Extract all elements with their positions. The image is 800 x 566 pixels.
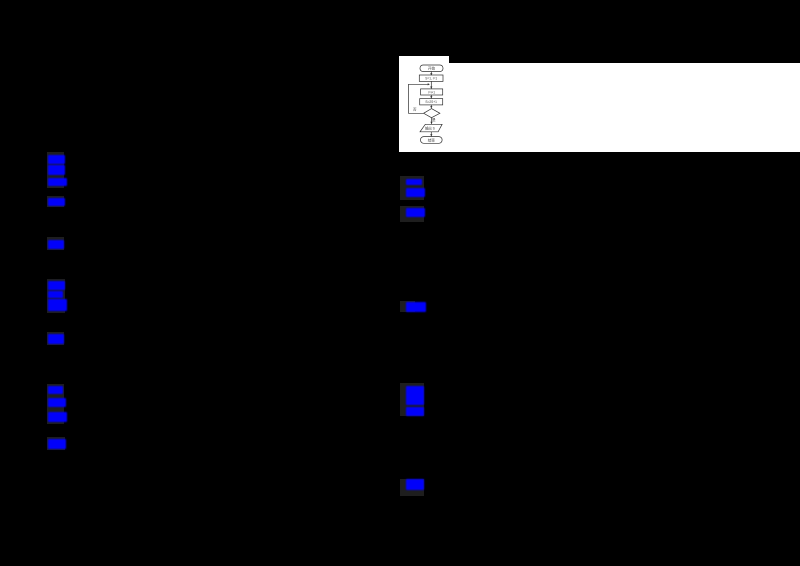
svg-text:开始: 开始 [428, 66, 436, 71]
svg-text:S=1, i=1: S=1, i=1 [425, 77, 437, 81]
svg-text:i=i+1: i=i+1 [428, 90, 435, 94]
svg-text:输出 S: 输出 S [425, 126, 436, 131]
svg-text:结束: 结束 [428, 137, 436, 142]
svg-text:S=2S+1: S=2S+1 [425, 100, 437, 104]
svg-text:是: 是 [432, 117, 436, 122]
svg-text:否: 否 [413, 108, 417, 112]
